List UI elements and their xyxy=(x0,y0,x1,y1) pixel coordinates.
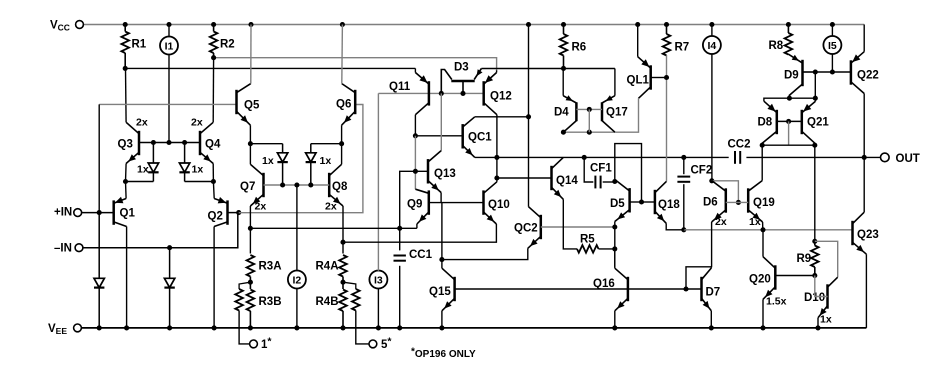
wire D5 loop xyxy=(615,144,642,202)
svg-text:VEE: VEE xyxy=(48,323,67,336)
label D4 xyxy=(554,107,569,119)
svg-text:Q6: Q6 xyxy=(336,99,351,111)
wire D4 base loop xyxy=(588,109,590,132)
node A xyxy=(123,179,128,184)
terminal OUT xyxy=(881,153,890,162)
wire R1 bottom to Q11 emitter xyxy=(123,66,416,71)
terminal 1* xyxy=(250,340,258,348)
svg-text:R4A: R4A xyxy=(316,261,339,273)
transistor Q15 xyxy=(442,268,455,311)
svg-text:Q22: Q22 xyxy=(857,70,879,82)
transistor Q4 xyxy=(200,122,213,163)
wire I4 bottom xyxy=(709,54,714,184)
label Q13 xyxy=(434,168,456,180)
wire diode left to node A xyxy=(126,181,154,183)
svg-text:CF2: CF2 xyxy=(691,165,713,177)
svg-text:D8: D8 xyxy=(758,117,773,129)
label Q4 xyxy=(205,139,221,151)
capacitor CC1 xyxy=(394,256,406,261)
wire D5 collector node xyxy=(614,180,616,182)
transistor D8 xyxy=(762,101,777,143)
transistor Q7 xyxy=(250,164,263,206)
terminal VEE xyxy=(74,324,82,332)
wire Q9-Q10 base line xyxy=(429,202,484,204)
svg-text:Q17: Q17 xyxy=(606,107,628,119)
wire Q22 emitter to VCC xyxy=(863,25,865,52)
wire Q3-Q4 base bus xyxy=(139,140,200,145)
svg-text:Q21: Q21 xyxy=(807,117,829,129)
svg-text:QC1: QC1 xyxy=(468,132,492,144)
resistor R9 xyxy=(811,241,819,275)
wire R4B bottom lead xyxy=(342,311,344,328)
wire main node line xyxy=(475,155,729,160)
label Q8 xyxy=(332,181,348,193)
wire Q23 emitter to VEE xyxy=(865,254,867,328)
resistor R8 xyxy=(785,25,793,55)
label 1x diode left xyxy=(262,155,274,167)
svg-text:+IN: +IN xyxy=(54,207,72,219)
transistor D4 xyxy=(563,95,576,132)
svg-text:CF1: CF1 xyxy=(590,163,612,175)
current source I3 xyxy=(369,271,387,289)
wire to terminal 5* xyxy=(356,311,369,344)
label R6 xyxy=(572,42,587,54)
wire Q14 emitter to R5 xyxy=(563,199,577,249)
wire Q3 collector to R1 node xyxy=(125,68,128,122)
label +IN xyxy=(54,207,72,219)
wire Q18 base stub xyxy=(642,201,655,203)
wire Q3 emitter to node A xyxy=(125,164,128,182)
label Q9 xyxy=(407,199,422,211)
svg-text:Q16: Q16 xyxy=(593,278,615,290)
label Q7 2x xyxy=(255,201,267,213)
wire D6 base jog xyxy=(712,181,741,205)
wire Q11 collector down xyxy=(414,115,416,136)
svg-text:Q20: Q20 xyxy=(749,274,771,286)
wire QC2 base xyxy=(541,224,618,229)
transistor Q14 xyxy=(552,157,564,199)
wire D9 base tie xyxy=(814,72,816,98)
svg-text:1x: 1x xyxy=(749,216,761,228)
wire Q12 collector down xyxy=(494,115,499,181)
svg-text:R3B: R3B xyxy=(259,296,282,308)
svg-text:Q1: Q1 xyxy=(120,208,136,220)
wire +IN to Q1 base xyxy=(82,210,114,215)
label Q3 2x xyxy=(136,117,148,129)
label Q4 2x xyxy=(191,117,203,129)
wire Q5 collector to VCC xyxy=(250,25,252,84)
wire Q13 emitter to mirror bases xyxy=(440,193,442,203)
svg-text:R5: R5 xyxy=(580,234,595,246)
svg-text:Q18: Q18 xyxy=(658,199,680,211)
wire Q19 collector up xyxy=(761,145,763,180)
wire D9 collector line xyxy=(787,96,818,101)
svg-text:CC1: CC1 xyxy=(409,249,433,261)
label CF1 xyxy=(590,163,612,175)
label diode right 1x xyxy=(192,164,204,176)
wire Q20 base xyxy=(775,273,817,278)
svg-text:R6: R6 xyxy=(572,42,587,54)
resistor R3B parallel xyxy=(235,289,243,311)
label Q5 xyxy=(244,100,260,112)
wire D5 emitter down xyxy=(614,222,616,267)
label Q21 xyxy=(807,117,829,129)
wire D8-Q21 base bus xyxy=(777,119,802,124)
svg-text:2x: 2x xyxy=(325,201,337,213)
wire QL1 emitter to VCC xyxy=(637,25,639,57)
svg-text:QL1: QL1 xyxy=(627,75,650,87)
wire R7 to Q18 collector xyxy=(664,56,669,182)
svg-text:1x: 1x xyxy=(262,155,274,167)
resistor R3A xyxy=(247,255,255,277)
svg-text:CC2: CC2 xyxy=(728,139,751,151)
label R5 xyxy=(580,234,595,246)
wire D6-Q19 base bus xyxy=(726,201,748,203)
transistor D6 xyxy=(712,181,726,222)
svg-text:R4B: R4B xyxy=(316,296,339,308)
wire Q2 emitter to node B xyxy=(212,182,215,199)
wire Q2 collector to VEE xyxy=(213,227,215,328)
wire CF1 left lead xyxy=(584,157,593,182)
svg-text:Q5: Q5 xyxy=(244,100,260,112)
label Q20 1.5x xyxy=(766,296,787,308)
wire Q22 collector to OUT xyxy=(863,94,865,158)
label Q17 xyxy=(606,107,628,119)
label D3 xyxy=(454,62,469,74)
diode input clamp diode left xyxy=(148,143,158,182)
wire Q15 emitter to VEE xyxy=(441,311,443,328)
svg-text:QC2: QC2 xyxy=(514,223,538,235)
wire Q4 emitter to node B xyxy=(212,164,214,182)
wire I3 bottom xyxy=(377,288,379,328)
wire Q6 collector to VCC xyxy=(341,25,344,84)
transistor D10 xyxy=(818,277,838,318)
label Q14 xyxy=(556,175,578,187)
label R3B xyxy=(259,296,282,308)
svg-text:*OP196 ONLY: *OP196 ONLY xyxy=(411,347,476,361)
label D5 xyxy=(610,198,625,210)
wire R9 jog to D10 collector xyxy=(815,241,838,277)
wire CF2 bottom lead xyxy=(683,184,685,230)
current source I5 xyxy=(823,36,841,54)
label R4B xyxy=(316,296,339,308)
svg-text:I5: I5 xyxy=(828,40,837,52)
label Q10 xyxy=(488,199,510,211)
label Q15 xyxy=(429,286,451,298)
wire Q13 collector to D3 node xyxy=(440,93,442,150)
svg-text:D3: D3 xyxy=(454,62,469,74)
resistor R2 xyxy=(210,25,218,58)
transistor QL1 xyxy=(638,57,651,99)
node VEE rail junctions xyxy=(97,325,821,330)
svg-text:1x: 1x xyxy=(137,164,149,176)
svg-text:1x: 1x xyxy=(320,155,332,167)
transistor D5 xyxy=(615,180,630,222)
resistor R3B xyxy=(247,290,255,312)
resistor R4B xyxy=(339,290,347,312)
wire QC1 collector to VCC drop xyxy=(475,114,531,119)
wire Q15 collector node to QC2 emitter xyxy=(439,248,527,262)
svg-text:1*: 1* xyxy=(261,336,272,352)
node -IN diode junction xyxy=(167,245,172,250)
label R3A xyxy=(259,261,282,273)
label Q2 xyxy=(208,211,223,223)
svg-text:VCC: VCC xyxy=(50,20,70,33)
transistor Q1 xyxy=(114,197,127,227)
transistor Q23 xyxy=(853,212,867,254)
svg-text:Q8: Q8 xyxy=(332,181,348,193)
resistor R7 xyxy=(663,25,671,56)
wire Q7-Q8 base bus xyxy=(264,182,330,187)
svg-text:1x: 1x xyxy=(820,314,832,326)
label Q22 xyxy=(857,70,879,82)
wire Q5 base line xyxy=(99,103,236,105)
wire Q20 emitter to VEE xyxy=(762,299,764,328)
svg-text:Q7: Q7 xyxy=(240,181,255,193)
svg-text:D6: D6 xyxy=(703,197,718,209)
wire L1 to Q23 base xyxy=(684,227,853,232)
svg-text:2x: 2x xyxy=(191,117,203,129)
label Q7 xyxy=(240,181,255,193)
label R7 xyxy=(675,42,690,54)
transistor Q10 xyxy=(484,182,497,224)
label D8 xyxy=(758,117,773,129)
svg-text:I1: I1 xyxy=(165,41,174,53)
wire R5 to D5 emitter line xyxy=(599,246,618,251)
transistor D3 xyxy=(441,69,482,94)
resistor R1 xyxy=(121,25,129,69)
label 5* xyxy=(381,336,392,352)
transistor Q18 xyxy=(655,181,667,223)
terminal VCC xyxy=(76,21,84,29)
label D6 2x xyxy=(715,216,727,228)
wire D7 collector loop xyxy=(686,267,711,289)
node B xyxy=(211,179,216,184)
wire to terminal 1* xyxy=(239,311,250,344)
wire I5 bottom xyxy=(831,54,833,72)
wire D8 collector join xyxy=(761,143,763,145)
label Q23 xyxy=(857,229,879,241)
wire Q6 base route to Q2 base xyxy=(239,105,363,213)
wire Q2 base stub xyxy=(228,210,242,215)
wire Q10 emitter to Q8 line xyxy=(343,224,496,242)
wire OUT xyxy=(864,156,880,158)
transistor QC2 xyxy=(528,207,541,249)
label Q8 2x xyxy=(325,201,337,213)
wire Q7 emitter to R3A xyxy=(248,206,253,254)
svg-text:1x: 1x xyxy=(192,164,204,176)
svg-text:1.5x: 1.5x xyxy=(766,296,787,308)
wire Q16 collector join xyxy=(614,249,616,268)
terminal -IN xyxy=(75,244,83,252)
wire Q5 emitter to node C xyxy=(249,125,251,144)
label CF2 xyxy=(691,165,713,177)
label Q6 xyxy=(336,99,351,111)
transistor Q22 xyxy=(851,52,864,94)
label Q16 xyxy=(593,278,615,290)
label D10 1x xyxy=(820,314,832,326)
label Q20 xyxy=(749,274,771,286)
label Q12 xyxy=(490,91,512,103)
label R9 xyxy=(797,253,812,265)
wire VCC drop x=528 xyxy=(528,25,530,207)
label R2 xyxy=(220,39,235,51)
label OUT xyxy=(896,153,920,165)
svg-text:Q4: Q4 xyxy=(205,139,221,151)
svg-text:2x: 2x xyxy=(136,117,148,129)
svg-text:Q19: Q19 xyxy=(753,197,775,209)
transistor Q2 xyxy=(214,197,227,227)
svg-text:Q10: Q10 xyxy=(488,199,510,211)
wire Q21 collector join xyxy=(814,143,816,145)
diode input clamp diode right xyxy=(179,143,189,182)
label Q1 xyxy=(120,208,136,220)
capacitor CF2 xyxy=(677,177,690,182)
wire +IN node riser xyxy=(98,104,100,212)
wire Q6 emitter to node D xyxy=(341,125,343,144)
wire Q13 base xyxy=(400,171,428,228)
wire D3 emitter line to R6 xyxy=(481,66,615,71)
wire Q7 collector to node C xyxy=(249,144,251,165)
wire I1 to input base bus xyxy=(168,54,170,142)
wire Q21 emitter up xyxy=(815,98,817,101)
wire VCC rail xyxy=(83,24,864,26)
wire VEE rail xyxy=(81,327,866,329)
svg-text:Q3: Q3 xyxy=(118,139,133,151)
label 1* xyxy=(261,336,272,352)
wire CF1 right lead xyxy=(603,179,618,184)
transistor Q11 xyxy=(415,73,429,115)
svg-text:OUT: OUT xyxy=(896,153,920,165)
capacitor CC2 xyxy=(735,151,740,164)
label Q3 xyxy=(118,139,133,151)
wire node D to diode xyxy=(311,141,344,146)
label diode left 1x xyxy=(137,164,149,176)
wire CC1 top lead xyxy=(399,228,401,250)
wire Q1 collector to VEE xyxy=(126,227,128,328)
wire Q11-D3-Q12 base bus xyxy=(378,91,483,96)
label R8 xyxy=(769,40,784,52)
wire Q1 emitter to node A xyxy=(125,182,128,199)
label CC2 xyxy=(728,139,751,151)
svg-text:D7: D7 xyxy=(706,287,721,299)
wire Q23 collector to OUT node xyxy=(863,157,865,212)
svg-text:R9: R9 xyxy=(797,253,812,265)
label D7 xyxy=(706,287,721,299)
svg-text:Q14: Q14 xyxy=(556,175,578,187)
diode input diode to VEE right xyxy=(164,248,174,328)
wire CF2 top lead xyxy=(683,157,685,174)
label Q19 xyxy=(753,197,775,209)
wire R4B parallel branch xyxy=(343,282,356,289)
wire diode right to node B xyxy=(185,181,214,183)
label CC1 xyxy=(409,249,433,261)
svg-text:R2: R2 xyxy=(220,39,235,51)
diode diode 1x left xyxy=(277,144,287,185)
wire CC1 bottom lead xyxy=(399,266,401,328)
svg-text:Q2: Q2 xyxy=(208,211,223,223)
label QC1 xyxy=(468,132,492,144)
wire D5 base stub xyxy=(630,199,644,204)
wire QL1 collector down xyxy=(561,98,639,134)
wire Q8 emitter to R4A xyxy=(340,206,345,254)
terminal 5* xyxy=(369,340,377,348)
label Q18 xyxy=(658,199,680,211)
wire Q21 collector to R9 xyxy=(812,145,817,244)
transistor Q6 xyxy=(342,84,356,126)
svg-text:D5: D5 xyxy=(610,198,625,210)
label QC2 xyxy=(514,223,538,235)
wire D9-Q22 base line xyxy=(813,69,851,74)
resistor R4A xyxy=(339,255,347,277)
wire Q18 emitter to L1 xyxy=(666,223,686,232)
wire I5 top xyxy=(831,25,833,37)
label VCC xyxy=(50,20,70,33)
wire -IN to Q2 base node xyxy=(83,213,238,248)
wire D6 emitter down xyxy=(711,222,713,267)
label D6 xyxy=(703,197,718,209)
wire -IN diode stub xyxy=(169,247,171,249)
svg-text:I3: I3 xyxy=(374,275,383,287)
label Q19 1x xyxy=(749,216,761,228)
wire I3 top to base bus corner xyxy=(377,93,379,270)
transistor Q17 xyxy=(602,95,615,132)
resistor R6 xyxy=(560,25,568,69)
wire Q10 collector to node xyxy=(496,178,498,182)
diode diode 1x right xyxy=(306,144,316,185)
label QL1 xyxy=(627,75,650,87)
wire D8-Q21 collector line xyxy=(760,143,818,148)
wire base tie down xyxy=(788,121,790,145)
svg-text:Q9: Q9 xyxy=(407,199,422,211)
wire I4 top xyxy=(711,25,713,37)
wire D7 emitter to VEE xyxy=(710,311,712,328)
wire D10 emitter to VEE xyxy=(817,318,819,328)
label R4A xyxy=(316,261,339,273)
wire Q8 collector to node D xyxy=(341,144,343,165)
wire mirror node vertical xyxy=(441,203,443,260)
svg-text:D9: D9 xyxy=(784,70,799,82)
wire D10 base tie xyxy=(815,276,828,297)
wire Q15-Q16-D7 base line xyxy=(455,286,702,291)
transistor Q21 xyxy=(802,101,816,143)
wire Q11 emitter to R1 line xyxy=(414,68,416,72)
transistor Q19 xyxy=(748,181,762,222)
wire Q17 emitter join xyxy=(614,69,616,96)
diode input diode to VEE left xyxy=(94,213,104,328)
svg-text:I4: I4 xyxy=(708,40,717,52)
transistor Q5 xyxy=(237,84,251,126)
svg-text:Q13: Q13 xyxy=(434,168,456,180)
wire R3B bottom lead xyxy=(249,311,251,328)
transistor Q8 xyxy=(329,164,343,206)
wire main node line right xyxy=(746,155,866,160)
wire node C to diode xyxy=(248,141,283,146)
wire Q11 collector to QC1 base xyxy=(413,133,463,138)
transistor QC1 xyxy=(463,117,475,158)
wire Q15 collector up xyxy=(441,260,443,269)
svg-text:5*: 5* xyxy=(381,336,392,352)
svg-text:Q11: Q11 xyxy=(389,81,411,93)
transistor Q13 xyxy=(428,151,441,193)
resistor R4B parallel xyxy=(352,289,360,311)
svg-text:R8: R8 xyxy=(769,40,784,52)
transistor Q9 xyxy=(415,189,428,224)
wire D8 emitter up xyxy=(764,98,790,101)
resistor R5 xyxy=(577,245,599,253)
wire QL1 base stub xyxy=(651,77,667,79)
svg-text:Q12: Q12 xyxy=(490,91,512,103)
